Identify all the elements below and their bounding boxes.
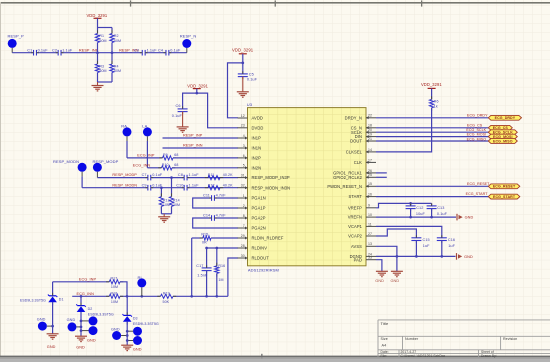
svg-text:27: 27 (368, 232, 372, 236)
svg-text:C6: C6 (176, 104, 181, 108)
svg-text:ECG_INP: ECG_INP (137, 153, 155, 157)
svg-text:ECG_DRDY: ECG_DRDY (495, 116, 516, 120)
resistor R17 (106, 277, 127, 297)
pin 32 RESP_MODN_IN3N (238, 184, 291, 191)
resistor R6 (430, 96, 439, 111)
wire RESP_INN to IN1N (163, 144, 239, 148)
power VDD_3291 (CLKSEL pull-up) (421, 82, 442, 99)
svg-text:10M: 10M (111, 300, 118, 304)
svg-text:Number: Number (405, 337, 419, 341)
svg-text:8: 8 (243, 214, 245, 218)
port ECG_START (488, 194, 520, 199)
svg-text:ESD9L3.3ST5G: ESD9L3.3ST5G (88, 312, 114, 316)
svg-text:0.1uF: 0.1uF (247, 78, 258, 82)
port RESP_N (180, 33, 197, 52)
svg-text:ECG_INN: ECG_INN (77, 292, 95, 296)
wire VCAP2 (376, 229, 416, 238)
svg-text:GND: GND (111, 327, 120, 331)
svg-text:ESD9L3.3ST5G: ESD9L3.3ST5G (20, 298, 46, 302)
svg-text:DVDD: DVDD (252, 125, 264, 130)
svg-text:21: 21 (368, 137, 372, 141)
svg-text:50M: 50M (99, 69, 106, 73)
svg-text:RESP_P: RESP_P (8, 33, 25, 38)
wire CLKSEL (376, 108, 432, 152)
svg-text:D3: D3 (133, 317, 138, 321)
pin 27 VCAP2 (348, 232, 376, 239)
svg-text:C15: C15 (423, 238, 430, 242)
capacitor C13 (427, 203, 448, 218)
svg-text:25: 25 (368, 173, 372, 177)
capacitor C12 (406, 203, 426, 218)
svg-text:12: 12 (241, 114, 245, 118)
svg-text:IN1N: IN1N (252, 146, 262, 151)
resistor R13 (159, 188, 170, 214)
svg-text:0.1uF: 0.1uF (172, 114, 183, 118)
pin 25 GPIO2_RCLK2 (333, 173, 376, 180)
svg-text:Revision: Revision (503, 337, 517, 341)
svg-text:C9: C9 (142, 183, 147, 187)
pin 6 IN2P (238, 154, 262, 161)
svg-text:RESP_MODN_IN3N: RESP_MODN_IN3N (252, 185, 291, 190)
resistor R19 (157, 291, 176, 304)
svg-text:10: 10 (368, 213, 372, 217)
svg-text:D2: D2 (88, 307, 93, 311)
svg-text:VDD_3291: VDD_3291 (187, 83, 208, 88)
resistor R10 (133, 163, 238, 170)
svg-text:R19: R19 (163, 291, 170, 295)
svg-text:R6: R6 (434, 100, 439, 104)
svg-text:VDD_3291: VDD_3291 (87, 13, 108, 18)
svg-text:ADS1292RIRSM: ADS1292RIRSM (248, 268, 279, 273)
pin 23 DVDD (238, 124, 264, 131)
pin 24 DGND (350, 252, 376, 259)
wire RESP_MODP row (97, 173, 238, 179)
svg-text:2: 2 (243, 204, 245, 208)
port GND (D1) (37, 317, 54, 330)
pin 21 DOUT (350, 137, 376, 144)
svg-text:DOUT: DOUT (350, 139, 362, 144)
wire START (376, 192, 488, 196)
svg-text:0R: 0R (202, 241, 207, 245)
svg-text:DRDY_N: DRDY_N (345, 115, 362, 120)
svg-text:7: 7 (243, 224, 245, 228)
pin 1 PGA1N (238, 194, 266, 201)
wire RCLK2 stub (376, 176, 387, 178)
svg-text:16: 16 (368, 193, 372, 197)
pin 20 SCLK (351, 128, 376, 135)
svg-text:GND: GND (87, 339, 96, 343)
resistor R4 (110, 53, 121, 82)
svg-text:C3: C3 (134, 48, 139, 52)
svg-text:R16: R16 (218, 264, 225, 268)
ground (D2) (75, 336, 96, 349)
svg-text:ECG_START: ECG_START (493, 195, 516, 199)
capacitor C17 (196, 248, 211, 296)
capacitor C6 (172, 93, 197, 118)
svg-text:R14: R14 (173, 198, 180, 202)
pin 14 CLKSEL (346, 148, 376, 155)
svg-text:IN1P: IN1P (252, 136, 262, 141)
svg-text:PAD: PAD (354, 257, 362, 262)
svg-text:32: 32 (241, 184, 245, 188)
pin 4 IN1P (238, 134, 262, 141)
svg-text:ECG_SCLK: ECG_SCLK (466, 128, 486, 132)
wire RLD bottom rail (72, 295, 228, 298)
wire RESP_INN rail (96, 51, 187, 54)
svg-text:ECG_MOSI: ECG_MOSI (467, 133, 487, 137)
svg-text:RESP_MODN: RESP_MODN (112, 183, 137, 187)
port RESP_P (8, 33, 25, 52)
svg-text:3: 3 (243, 144, 245, 148)
wire RLDINV row (205, 247, 238, 250)
port GND (D3 left) (111, 327, 129, 340)
svg-text:C8: C8 (178, 173, 183, 177)
svg-text:30M: 30M (173, 203, 180, 207)
svg-text:C4: C4 (158, 48, 163, 52)
wire RESP_INP rail (12, 52, 97, 54)
port ECG_CS (488, 125, 512, 130)
svg-text:4.7nF: 4.7nF (216, 194, 227, 198)
capacitor C11 (193, 194, 238, 208)
svg-text:0.1uF: 0.1uF (437, 212, 448, 216)
diode D1 (20, 282, 64, 334)
svg-text:C16: C16 (448, 238, 455, 242)
svg-text:PGA2P: PGA2P (252, 216, 266, 221)
svg-text:RESP_MODN: RESP_MODN (53, 159, 79, 164)
pin 13 AVSS (351, 242, 376, 249)
ground GND (VREF) (457, 214, 473, 221)
capacitor C4 (158, 48, 181, 55)
port RESP_MODN (53, 159, 87, 188)
resistor R14 (169, 178, 180, 214)
svg-text:1.1uF: 1.1uF (189, 183, 200, 187)
port GND (D2 lower right) (80, 326, 98, 335)
svg-text:C13: C13 (437, 206, 444, 210)
svg-text:GND: GND (375, 279, 384, 283)
ground (D3) (121, 345, 142, 351)
svg-text:0.1uF: 0.1uF (38, 48, 49, 52)
port RA (121, 123, 131, 157)
svg-text:GND: GND (37, 317, 46, 321)
svg-text:17: 17 (368, 158, 372, 162)
capacitor C5 (238, 63, 258, 82)
wire DVDD feed (197, 93, 238, 128)
port ECG_RESET (488, 184, 520, 189)
svg-text:10uF: 10uF (416, 212, 426, 216)
svg-text:33: 33 (368, 256, 372, 260)
ground (AVSS) (391, 271, 403, 283)
svg-text:1.5nF: 1.5nF (197, 274, 208, 278)
svg-text:R15: R15 (201, 232, 208, 236)
svg-text:START: START (349, 194, 363, 199)
capacitor C9 (142, 183, 163, 190)
svg-text:ECG_MISO: ECG_MISO (493, 139, 513, 143)
svg-text:ECG_CS: ECG_CS (467, 123, 483, 127)
capacitor C14 (193, 214, 238, 228)
capacitor C8 (178, 173, 199, 180)
port ECG_SCLK (488, 130, 517, 135)
pin 16 START (349, 193, 376, 200)
svg-text:PGA1P: PGA1P (252, 206, 266, 211)
svg-text:AVSS: AVSS (351, 244, 362, 249)
svg-text:ESD9L3.3ST5G: ESD9L3.3ST5G (133, 322, 159, 326)
resistor R12 (205, 183, 233, 189)
svg-text:13: 13 (368, 242, 372, 246)
port ECG_MOSI (488, 134, 517, 139)
svg-text:C2: C2 (52, 48, 57, 52)
svg-text:C7: C7 (142, 173, 147, 177)
resistor R11 (205, 173, 233, 180)
svg-text:22: 22 (368, 114, 372, 118)
pin 18 CS_N (351, 124, 376, 131)
pin 3 IN1N (238, 144, 262, 151)
op-amp U3 ADS1292 (247, 102, 366, 272)
svg-text:R3: R3 (99, 64, 104, 68)
wire VCAP1 (376, 226, 442, 237)
pin 19 DIN (355, 133, 376, 140)
svg-text:C:\Users\..\ADS1291.SchDoc: C:\Users\..\ADS1291.SchDoc (401, 354, 446, 358)
pin 29 RLDIN_RLDREF (238, 234, 284, 241)
svg-text:68: 68 (174, 163, 178, 167)
svg-text:U3: U3 (247, 102, 253, 107)
svg-text:ECG_RESET: ECG_RESET (467, 182, 490, 186)
svg-text:18: 18 (368, 124, 372, 128)
pin 7 PGA2N (238, 224, 266, 231)
svg-text:1M: 1M (218, 278, 223, 282)
svg-text:1: 1 (243, 194, 245, 198)
svg-text:R2: R2 (114, 34, 119, 38)
svg-text:VREFN: VREFN (348, 215, 362, 220)
pin 30 RLDOUT (238, 254, 270, 261)
svg-text:6: 6 (243, 154, 245, 158)
svg-text:20: 20 (368, 128, 372, 132)
pin 12 AVDD (238, 114, 263, 121)
svg-text:50M: 50M (114, 39, 121, 43)
svg-text:R13: R13 (163, 198, 170, 202)
wire RLDOUT feedback (228, 258, 238, 296)
svg-text:4: 4 (243, 134, 245, 138)
svg-text:26: 26 (368, 169, 372, 173)
wire DGND rail (376, 255, 456, 257)
svg-text:R4: R4 (114, 64, 119, 68)
ground GND (DGND rail) (457, 253, 473, 260)
ground (R13/R14) (158, 214, 171, 222)
wire RESP_INP to IN1P (163, 134, 239, 138)
svg-text:RESP_INP: RESP_INP (183, 134, 203, 138)
pin 8 PGA2P (238, 214, 266, 221)
resistor R15 (192, 232, 238, 244)
svg-text:RESP_MODP_IN3P: RESP_MODP_IN3P (252, 175, 290, 180)
svg-text:C5: C5 (249, 72, 254, 76)
ground (D1) (47, 334, 59, 349)
svg-text:5: 5 (243, 164, 245, 168)
svg-text:GND: GND (76, 345, 85, 349)
svg-text:C11: C11 (203, 194, 210, 198)
port RESP_MODP (93, 159, 119, 178)
svg-text:28: 28 (241, 244, 245, 248)
svg-text:RESP_INN: RESP_INN (183, 144, 203, 148)
capacitor C1 (27, 48, 48, 55)
svg-text:1.1uF: 1.1uF (147, 48, 158, 52)
svg-text:0.1uF: 0.1uF (152, 173, 163, 177)
pin 28 RLDINV (238, 244, 268, 251)
svg-text:11: 11 (368, 222, 372, 226)
port LA (142, 123, 152, 167)
port ECG_DRDY (488, 115, 521, 120)
resistor R2 (110, 30, 121, 52)
svg-text:1k: 1k (434, 104, 438, 108)
svg-text:0.1uF: 0.1uF (170, 48, 181, 52)
wire VREFN rail (376, 216, 456, 218)
diode D3 (123, 296, 160, 345)
svg-text:C14: C14 (203, 214, 210, 218)
svg-text:File:: File: (381, 354, 388, 358)
svg-text:1uF: 1uF (423, 244, 430, 248)
svg-text:C17: C17 (196, 264, 203, 268)
svg-text:RESP_INP: RESP_INP (79, 48, 99, 52)
wire SCLK (376, 128, 488, 132)
svg-text:VCAP2: VCAP2 (348, 234, 362, 239)
svg-text:50K: 50K (163, 300, 170, 304)
pin 17 CLK (354, 158, 376, 165)
svg-text:IN2P: IN2P (252, 156, 262, 161)
svg-text:Size: Size (381, 337, 388, 341)
wire DRDY (376, 113, 488, 117)
svg-text:RLDIN_RLDREF: RLDIN_RLDREF (252, 236, 284, 241)
wire RCLK1 stub (376, 172, 387, 174)
capacitor C16 (437, 235, 456, 258)
svg-text:10M: 10M (111, 285, 118, 289)
svg-text:R1: R1 (99, 34, 104, 38)
wire RLD node vertical (191, 238, 193, 296)
svg-text:D1: D1 (59, 297, 64, 301)
svg-text:CLK: CLK (354, 160, 362, 165)
ground (PAD) (375, 271, 388, 283)
resistor R9 (127, 153, 238, 160)
svg-text:GND: GND (464, 255, 473, 259)
wire divider top (98, 27, 113, 29)
svg-text:PGA2N: PGA2N (252, 226, 266, 231)
pin 10 VREFN (348, 213, 376, 220)
svg-text:PGA1N: PGA1N (252, 196, 266, 201)
wire AVSS (376, 246, 398, 271)
pin 22 DRDY_N (345, 114, 376, 121)
svg-text:68: 68 (174, 153, 178, 157)
svg-text:ECG_START: ECG_START (466, 192, 489, 196)
wire VREFP rail (376, 202, 432, 208)
svg-text:AVDD: AVDD (252, 116, 263, 121)
svg-text:0.1uF: 0.1uF (152, 183, 163, 187)
capacitor C7 (142, 173, 163, 180)
svg-text:C12: C12 (416, 206, 423, 210)
svg-text:14: 14 (368, 148, 372, 152)
svg-text:VREFP: VREFP (348, 205, 362, 210)
wire RESP_MODN row (82, 183, 238, 189)
svg-text:ECG_DRDY: ECG_DRDY (467, 113, 488, 117)
svg-text:IN2N: IN2N (252, 165, 262, 170)
pin 11 VCAP1 (348, 222, 376, 229)
ground (divider) (92, 82, 104, 91)
pin 9 VREFP (348, 204, 376, 211)
wire MISO (376, 137, 488, 141)
capacitor C15 (411, 235, 430, 258)
wire AVDD feed (228, 63, 243, 118)
svg-text:50M: 50M (114, 69, 121, 73)
svg-text:VDD_3291: VDD_3291 (232, 47, 254, 52)
pin 26 GPIO1_RCLK1 (333, 169, 376, 176)
resistor R1 (95, 28, 112, 53)
port GND (D3 lower right) (126, 336, 142, 345)
svg-text:ECG_INP: ECG_INP (79, 277, 97, 281)
svg-text:GND: GND (47, 345, 56, 349)
svg-text:31: 31 (241, 174, 245, 178)
capacitor C3 (134, 48, 157, 55)
wire ECG_INP row (53, 277, 110, 281)
wire PAD (376, 260, 382, 272)
svg-text:1.1uF: 1.1uF (189, 173, 200, 177)
svg-text:C10: C10 (176, 183, 183, 187)
svg-text:23: 23 (241, 124, 245, 128)
pin 33 PAD (354, 256, 376, 263)
svg-text:40.2K: 40.2K (223, 183, 233, 187)
resistor R16 (215, 248, 226, 296)
svg-text:RLDINV: RLDINV (252, 246, 268, 251)
power VDD_3291 (DVDD) (187, 83, 208, 94)
capacitor C10 (176, 183, 199, 190)
port ECG_MISO (488, 139, 517, 144)
svg-text:50M: 50M (99, 39, 106, 43)
svg-text:RESP_MODP: RESP_MODP (112, 173, 137, 177)
svg-text:C1: C1 (27, 48, 32, 52)
power VDD_3291 (bias divider) (87, 13, 108, 28)
port RL (137, 275, 146, 296)
svg-text:A4: A4 (382, 344, 387, 348)
svg-text:CLKSEL: CLKSEL (346, 150, 363, 155)
diode D2 (76, 296, 114, 336)
svg-text:30: 30 (241, 254, 245, 258)
svg-text:Drawn By:: Drawn By: (481, 354, 497, 358)
wire divider bottom (98, 81, 113, 83)
svg-text:1uF: 1uF (448, 244, 455, 248)
wire MOSI (376, 133, 488, 137)
resistor R3 (95, 53, 106, 82)
svg-text:19: 19 (368, 133, 372, 137)
port GND (D3 upper right) (126, 327, 142, 336)
svg-text:GND: GND (465, 216, 474, 220)
svg-text:4.7nF: 4.7nF (216, 214, 227, 218)
svg-text:VDD_3291: VDD_3291 (421, 82, 442, 87)
svg-text:9: 9 (368, 204, 370, 208)
pin 5 IN2N (238, 164, 262, 171)
svg-text:1.1uF: 1.1uF (62, 48, 73, 52)
svg-text:Title: Title (381, 321, 390, 326)
pin 2 PGA1P (238, 204, 266, 211)
svg-text:RESP_N: RESP_N (180, 33, 197, 38)
svg-text:ECG_INN: ECG_INN (133, 163, 151, 167)
svg-text:PWDN_RESET_N: PWDN_RESET_N (327, 184, 362, 189)
svg-text:GND: GND (133, 348, 142, 352)
resistor R18 (106, 291, 123, 304)
port GND (D2 upper right) (80, 316, 98, 325)
svg-text:15: 15 (368, 182, 372, 186)
pin 15 PWDN_RESET_N (327, 182, 376, 189)
ground (C5) (237, 77, 249, 98)
svg-text:GPIO2_RCLK2: GPIO2_RCLK2 (333, 175, 363, 180)
ground (C6) (177, 112, 189, 133)
svg-text:10M: 10M (163, 203, 170, 207)
svg-text:ECG_RESET: ECG_RESET (493, 185, 516, 189)
svg-text:GND: GND (391, 279, 400, 283)
